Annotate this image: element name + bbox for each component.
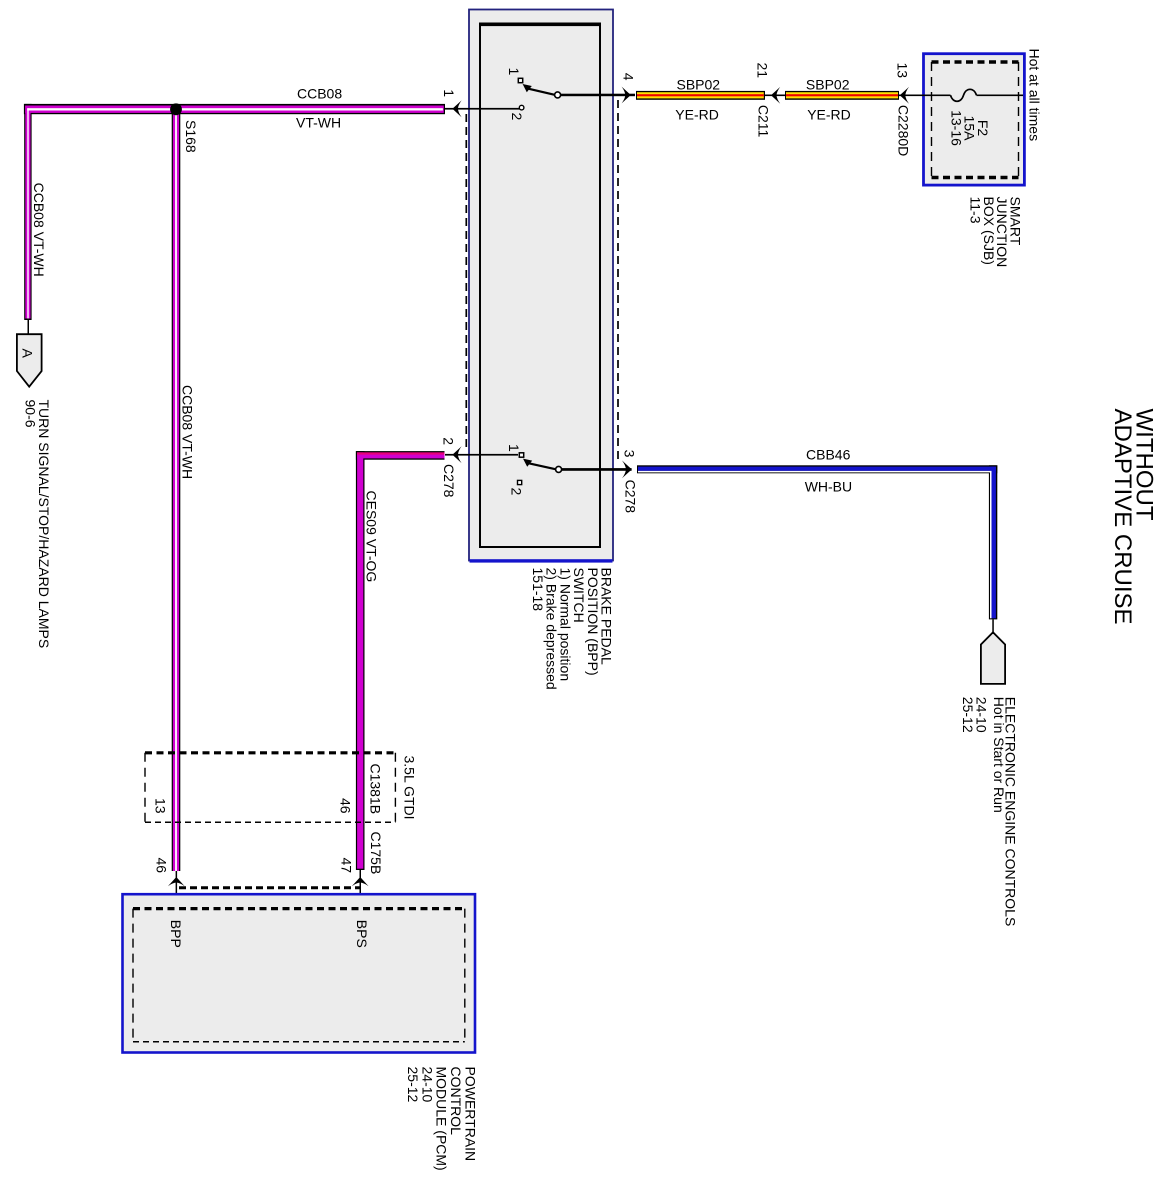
svg-text:S168: S168 — [183, 120, 199, 153]
BPP switch common contact (bottom) — [556, 466, 562, 472]
svg-text:WITHOUTADAPTIVE CRUISE: WITHOUTADAPTIVE CRUISE — [1109, 409, 1158, 625]
connector C278 dashed line (left) — [465, 114, 467, 449]
svg-text:VT-WH: VT-WH — [296, 115, 341, 131]
svg-text:25-12: 25-12 — [960, 697, 976, 733]
PCM box — [123, 894, 476, 1052]
svg-text:CCB08 VT-WH: CCB08 VT-WH — [31, 183, 47, 277]
svg-text:1: 1 — [506, 68, 522, 76]
BPP inner box thick top edge — [479, 23, 601, 27]
off-page connector (electronic engine controls) — [981, 632, 1005, 684]
SJB inner dashed box — [932, 62, 1019, 178]
svg-text:Hot at all times: Hot at all times — [1027, 49, 1043, 142]
BPP switch contact 1 (bottom) — [519, 453, 523, 457]
dashed box 3.5L GTDI — [145, 753, 395, 823]
BPP switch contact 1 (top) — [518, 78, 522, 82]
junction dot S168 — [170, 103, 182, 115]
BPP switch blade arrowhead (bottom) — [523, 459, 532, 467]
connector C278 dashed line (right) — [617, 100, 619, 464]
wire CBB46 WH-BU — [637, 465, 997, 619]
lead to off-page connector A — [28, 319, 30, 335]
svg-text:13: 13 — [895, 63, 911, 79]
svg-text:POWERTRAINCONTROLMODULE (PCM)2: POWERTRAINCONTROLMODULE (PCM)24-1025-12 — [405, 1067, 478, 1171]
svg-text:3.5L GTDI: 3.5L GTDI — [402, 756, 418, 820]
wire CCB08 VT-WH vertical S168 branch — [27, 105, 443, 871]
pin lead 47 into PCM — [360, 870, 362, 909]
BPP switch common contact (top) — [555, 92, 561, 98]
svg-text:CES09 VT-OG: CES09 VT-OG — [364, 491, 380, 583]
svg-text:46: 46 — [154, 858, 170, 874]
svg-text:SBP02: SBP02 — [806, 76, 850, 92]
svg-text:A: A — [20, 349, 36, 359]
svg-text:4: 4 — [621, 73, 637, 81]
wire CCB08 VT-WH top horizontal + left branch — [24, 104, 445, 320]
connector arrow pin 3 — [622, 460, 632, 478]
svg-text:21: 21 — [755, 63, 771, 79]
connector arrow pin 1 — [452, 100, 461, 117]
svg-text:C278: C278 — [441, 464, 457, 498]
svg-text:2: 2 — [441, 437, 457, 445]
connector arrow C211 — [771, 87, 780, 104]
pin lead 46 into PCM — [176, 871, 178, 909]
svg-text:3: 3 — [622, 450, 638, 458]
fuse F2 — [951, 89, 977, 101]
wire pin 2 internal (bottom switch) — [445, 454, 518, 456]
svg-text:BPS: BPS — [354, 920, 370, 948]
svg-text:CCB08: CCB08 — [297, 86, 342, 102]
dashed connector line C175B above PCM — [179, 886, 361, 889]
wire SBP02 YE-RD segment 1 — [636, 91, 787, 100]
BPP switch blade (bottom) — [528, 463, 556, 469]
connector arrow pin 2 — [452, 446, 461, 463]
lead to off-page connector EEC — [992, 619, 994, 632]
svg-text:C175B: C175B — [368, 832, 384, 875]
svg-text:TURN SIGNAL/STOP/HAZARD LAMPS9: TURN SIGNAL/STOP/HAZARD LAMPS90-6 — [22, 400, 52, 649]
svg-text:1: 1 — [441, 89, 457, 97]
wire CES09 VT-OG — [356, 451, 445, 870]
svg-text:C211: C211 — [756, 105, 772, 138]
PCM inner dashed box — [133, 909, 465, 1042]
connector arrow pin 4 — [622, 87, 631, 104]
connector arrow PCM pin 46 — [168, 877, 185, 886]
BPP switch box — [469, 10, 613, 561]
BPP switch blade (top) — [528, 89, 555, 95]
wire SBP02 YE-RD segment 2 — [785, 91, 899, 100]
svg-text:Hot in Start or Run: Hot in Start or Run — [991, 697, 1007, 813]
svg-text:1: 1 — [506, 444, 522, 452]
SJB box — [924, 54, 1025, 185]
BPP switch contact 2 (top) — [519, 105, 524, 110]
svg-text:SBP02: SBP02 — [677, 76, 721, 92]
BPP box bottom blue edge — [470, 559, 613, 562]
BPP switch contact 2 (bottom) — [518, 480, 522, 484]
svg-text:2: 2 — [509, 488, 525, 496]
svg-text:13: 13 — [153, 798, 169, 814]
svg-text:YE-RD: YE-RD — [675, 107, 719, 123]
svg-text:BPP: BPP — [168, 920, 184, 948]
connector arrow PCM pin 47 — [352, 877, 369, 886]
svg-text:46: 46 — [338, 798, 354, 814]
svg-text:WH-BU: WH-BU — [805, 479, 852, 495]
BPP inner box — [480, 24, 600, 548]
svg-text:C2280D: C2280D — [896, 105, 912, 156]
svg-text:47: 47 — [339, 858, 355, 874]
svg-text:C1381B: C1381B — [368, 764, 384, 815]
wire from C2280D into SJB — [899, 95, 951, 97]
svg-text:C278: C278 — [623, 480, 639, 514]
wire pin 1 internal (top switch) — [445, 108, 519, 110]
wire pin 4 internal (top switch) — [561, 94, 635, 97]
svg-text:CCB08 VT-WH: CCB08 VT-WH — [180, 385, 196, 479]
off-page connector A — [17, 334, 42, 387]
svg-text:2: 2 — [509, 113, 525, 121]
fuse lead — [977, 95, 1024, 97]
svg-text:SMARTJUNCTIONBOX (SJB)11-3: SMARTJUNCTIONBOX (SJB)11-3 — [968, 197, 1024, 268]
wire pin 3 internal (bottom switch) — [562, 468, 632, 471]
svg-text:BRAKE PEDALPOSITION (BPP)SWITC: BRAKE PEDALPOSITION (BPP)SWITCH1) Normal… — [530, 568, 615, 690]
svg-text:CBB46: CBB46 — [806, 447, 851, 463]
svg-text:YE-RD: YE-RD — [807, 107, 851, 123]
connector arrow C2280D — [900, 87, 909, 104]
BPP switch blade arrowhead (top) — [523, 84, 532, 92]
